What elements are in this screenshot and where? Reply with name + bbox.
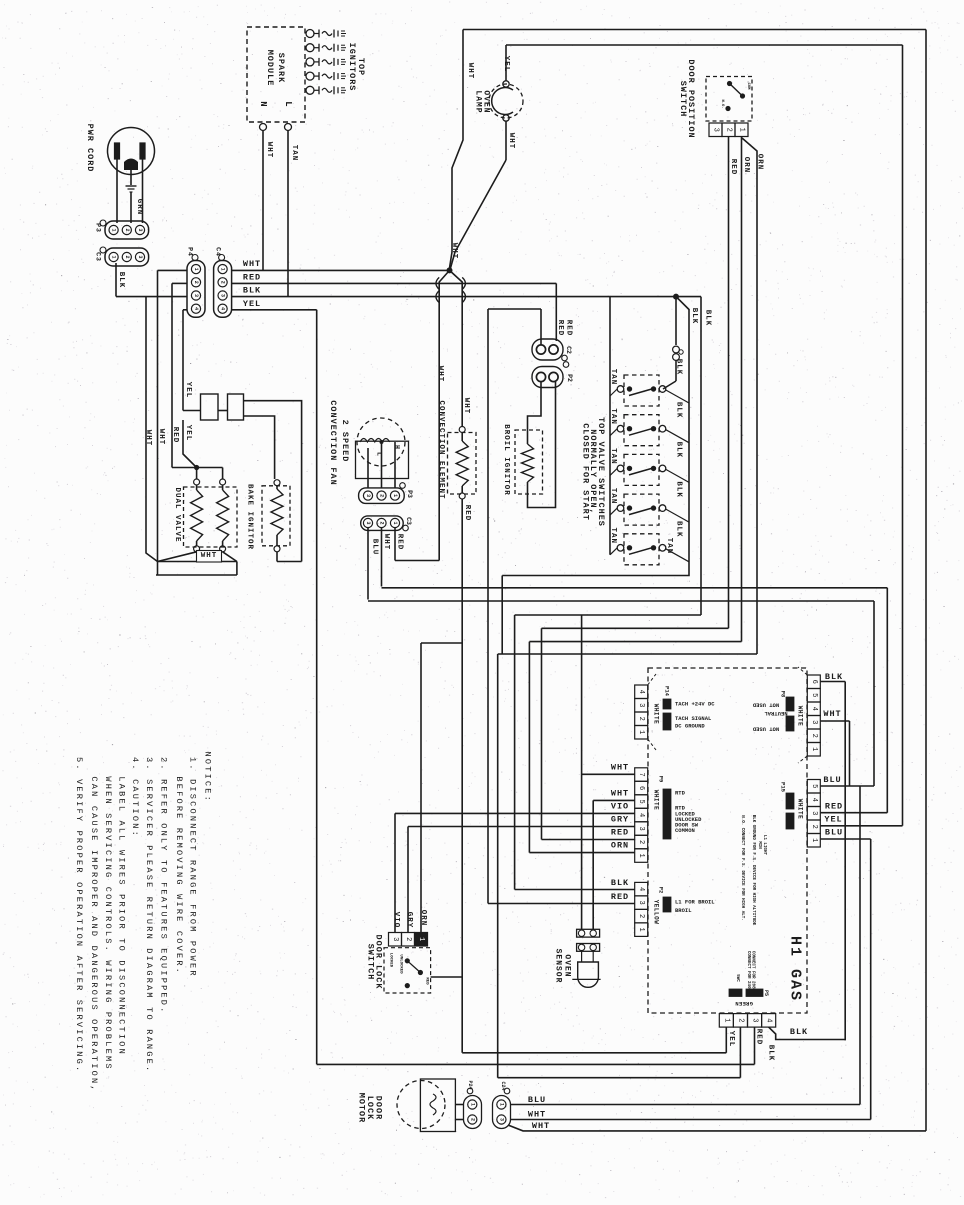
svg-text:WHT: WHT xyxy=(201,552,218,560)
svg-text:2: 2 xyxy=(404,937,412,941)
svg-text:COM: COM xyxy=(746,83,750,91)
svg-text:VIO: VIO xyxy=(611,802,629,812)
svg-text:RED: RED xyxy=(825,802,843,812)
svg-text:2: 2 xyxy=(810,825,818,829)
svg-text:TAN: TAN xyxy=(609,448,617,465)
svg-text:NOT USED: NOT USED xyxy=(752,702,779,709)
svg-text:RED: RED xyxy=(611,828,629,838)
svg-text:YEL: YEL xyxy=(243,299,261,309)
svg-text:1: 1 xyxy=(637,730,645,734)
svg-text:DUAL VALVE: DUAL VALVE xyxy=(173,487,181,542)
svg-text:3: 3 xyxy=(391,937,399,941)
svg-text:3: 3 xyxy=(810,720,818,724)
svg-text:P4: P4 xyxy=(187,247,194,257)
svg-text:CONVECTION FAN: CONVECTION FAN xyxy=(328,400,338,485)
svg-text:3: 3 xyxy=(137,228,143,231)
svg-text:1: 1 xyxy=(498,1103,504,1106)
svg-text:BLK GROUND FOR F.S. DEVICE FOR: BLK GROUND FOR F.S. DEVICE FOR HIGH ALTI… xyxy=(751,815,755,926)
svg-text:BROIL: BROIL xyxy=(675,907,692,914)
svg-text:CAN CAUSE IMPROPER AND DANGERO: CAN CAUSE IMPROPER AND DANGEROUS OPERATI… xyxy=(89,776,99,1092)
svg-text:LOCKED: LOCKED xyxy=(389,953,393,968)
svg-text:L: L xyxy=(283,101,293,106)
svg-text:2: 2 xyxy=(379,521,385,524)
svg-text:H1 GAS: H1 GAS xyxy=(787,936,804,1002)
svg-text:BLK: BLK xyxy=(675,481,683,498)
svg-text:3: 3 xyxy=(498,1118,504,1121)
svg-text:1: 1 xyxy=(392,521,398,524)
svg-text:RED: RED xyxy=(171,427,179,444)
svg-text:C2: C2 xyxy=(565,346,572,354)
svg-text:P3: P3 xyxy=(95,223,102,233)
svg-text:PWR CORD: PWR CORD xyxy=(85,124,95,173)
svg-text:NOTICE:: NOTICE: xyxy=(203,752,213,804)
svg-text:2: 2 xyxy=(736,1018,744,1022)
svg-text:TAN: TAN xyxy=(290,145,298,162)
svg-text:WHT: WHT xyxy=(450,243,458,260)
svg-text:CONNECT FOR 240V: CONNECT FOR 240V xyxy=(746,951,750,992)
svg-text:MODULE: MODULE xyxy=(265,50,275,87)
svg-text:C3: C3 xyxy=(405,517,412,525)
svg-text:P2: P2 xyxy=(658,887,665,894)
svg-text:6: 6 xyxy=(810,680,818,684)
svg-text:4: 4 xyxy=(220,307,226,310)
svg-text:2: 2 xyxy=(637,717,645,721)
svg-text:BLU: BLU xyxy=(825,828,843,838)
svg-text:3: 3 xyxy=(637,826,645,830)
svg-text:WHT: WHT xyxy=(265,142,273,159)
svg-text:WHT: WHT xyxy=(436,366,444,383)
svg-text:RED: RED xyxy=(243,273,261,283)
svg-text:WHT: WHT xyxy=(382,534,390,551)
svg-text:P5: P5 xyxy=(763,990,769,996)
svg-text:4: 4 xyxy=(637,887,645,891)
svg-text:WHT: WHT xyxy=(466,63,474,80)
svg-text:1: 1 xyxy=(722,1018,730,1022)
svg-text:5: 5 xyxy=(810,784,818,788)
svg-text:1: 1 xyxy=(810,747,818,751)
svg-text:3: 3 xyxy=(810,811,818,815)
svg-text:YELLOW: YELLOW xyxy=(653,900,660,925)
svg-text:3: 3 xyxy=(365,494,371,497)
svg-text:RED: RED xyxy=(565,320,573,337)
svg-text:1: 1 xyxy=(810,838,818,842)
svg-text:N.O.: N.O. xyxy=(720,99,724,108)
svg-text:CLOSED FOR START: CLOSED FOR START xyxy=(581,423,591,521)
svg-text:UNLOCKED: UNLOCKED xyxy=(399,954,403,974)
svg-text:4. CAUTION:: 4. CAUTION: xyxy=(130,757,140,838)
svg-text:BROIL IGNITOR: BROIL IGNITOR xyxy=(502,424,510,496)
svg-text:WHEN SERVICING CONTROLS. WIRIN: WHEN SERVICING CONTROLS. WIRING PROBLEMS xyxy=(103,776,113,1070)
svg-text:ORN: ORN xyxy=(742,157,750,174)
svg-text:1. DISCONNECT RANGE FROM POWER: 1. DISCONNECT RANGE FROM POWER xyxy=(187,757,197,978)
svg-text:WHT: WHT xyxy=(243,259,261,269)
svg-text:C3: C3 xyxy=(95,252,102,262)
svg-text:P8: P8 xyxy=(780,691,787,698)
svg-text:RED: RED xyxy=(729,159,737,176)
svg-text:RED: RED xyxy=(611,892,629,902)
svg-text:1: 1 xyxy=(469,1103,475,1106)
svg-text:LAMP: LAMP xyxy=(474,90,483,113)
svg-text:3: 3 xyxy=(193,294,199,297)
svg-text:WHITE: WHITE xyxy=(653,790,660,811)
svg-text:WHITE: WHITE xyxy=(797,706,804,727)
svg-text:2: 2 xyxy=(637,840,645,844)
svg-text:1: 1 xyxy=(417,937,425,941)
svg-text:N.O. CONNECT FOR F.S. DEVICE F: N.O. CONNECT FOR F.S. DEVICE FOR HIGH AL… xyxy=(740,815,744,921)
svg-text:4: 4 xyxy=(765,1018,773,1022)
svg-text:RTD: RTD xyxy=(675,790,686,797)
svg-text:3: 3 xyxy=(365,521,371,524)
svg-text:YEL: YEL xyxy=(502,56,510,73)
svg-text:1: 1 xyxy=(392,494,398,497)
svg-text:SPARK: SPARK xyxy=(276,53,286,84)
svg-text:VIO: VIO xyxy=(392,912,400,929)
svg-text:2: 2 xyxy=(124,228,130,231)
svg-text:YEL: YEL xyxy=(184,425,192,442)
svg-text:TACH SIGNAL: TACH SIGNAL xyxy=(675,715,712,722)
svg-text:BLK: BLK xyxy=(675,521,683,538)
svg-text:5WC: 5WC xyxy=(735,974,739,982)
svg-text:4: 4 xyxy=(810,798,818,802)
svg-text:WHT: WHT xyxy=(528,1110,546,1120)
svg-text:P3: P3 xyxy=(406,490,413,498)
svg-text:BLK: BLK xyxy=(243,286,261,296)
svg-text:WHT: WHT xyxy=(462,398,470,415)
svg-text:BLU: BLU xyxy=(371,539,379,556)
svg-text:COMMON: COMMON xyxy=(675,827,695,834)
svg-text:5: 5 xyxy=(637,799,645,803)
svg-text:2: 2 xyxy=(810,734,818,738)
svg-text:TAN: TAN xyxy=(609,488,617,505)
svg-text:BEFORE REMOVING WIRE COVER.: BEFORE REMOVING WIRE COVER. xyxy=(174,776,184,975)
svg-text:3: 3 xyxy=(137,255,143,258)
svg-text:MOTOR: MOTOR xyxy=(357,1093,367,1124)
svg-text:2: 2 xyxy=(637,914,645,918)
svg-text:IGNITORS: IGNITORS xyxy=(347,43,357,92)
svg-text:L1 FOR BROIL: L1 FOR BROIL xyxy=(675,899,715,906)
svg-text:BLK: BLK xyxy=(704,310,712,327)
svg-text:BLK: BLK xyxy=(825,672,843,682)
svg-text:2: 2 xyxy=(725,128,733,132)
svg-text:C24: C24 xyxy=(500,1081,506,1090)
svg-text:OVEN: OVEN xyxy=(563,954,572,977)
svg-text:4: 4 xyxy=(810,707,818,711)
svg-text:YEL: YEL xyxy=(824,815,842,825)
svg-text:RED: RED xyxy=(425,977,429,985)
svg-text:BLK: BLK xyxy=(690,308,698,325)
svg-text:BAKE IGNITOR: BAKE IGNITOR xyxy=(246,484,254,550)
svg-text:2. REFER ONLY TO FEATURES EQUI: 2. REFER ONLY TO FEATURES EQUIPPED. xyxy=(159,757,169,1015)
svg-text:SENSOR: SENSOR xyxy=(554,949,563,984)
svg-text:1: 1 xyxy=(193,268,199,271)
svg-text:P9: P9 xyxy=(658,776,665,783)
svg-text:SWITCH: SWITCH xyxy=(678,81,688,118)
svg-text:P15: P15 xyxy=(780,782,787,793)
svg-text:GRY: GRY xyxy=(405,912,413,929)
svg-text:GRN: GRN xyxy=(135,199,143,216)
svg-text:C4: C4 xyxy=(215,247,222,257)
svg-text:1: 1 xyxy=(637,853,645,857)
svg-text:YEL: YEL xyxy=(184,382,192,399)
svg-text:BLU: BLU xyxy=(823,775,841,785)
svg-text:P24: P24 xyxy=(467,1080,473,1089)
svg-text:6: 6 xyxy=(637,786,645,790)
svg-text:2: 2 xyxy=(124,255,130,258)
svg-text:P2: P2 xyxy=(566,374,573,382)
svg-text:N: N xyxy=(258,101,268,106)
svg-text:5: 5 xyxy=(810,693,818,697)
svg-text:RED: RED xyxy=(463,505,471,522)
svg-text:3. SERVICER PLEASE RETURN DIAG: 3. SERVICER PLEASE RETURN DIAGRAM TO RAN… xyxy=(144,757,154,1073)
svg-text:BLK: BLK xyxy=(767,1045,775,1062)
svg-text:NOT USED: NOT USED xyxy=(752,726,779,733)
svg-text:ORN: ORN xyxy=(756,154,764,171)
svg-text:BLK: BLK xyxy=(611,878,629,888)
svg-text:1: 1 xyxy=(738,128,746,132)
svg-text:3: 3 xyxy=(637,703,645,707)
svg-text:1: 1 xyxy=(111,228,117,231)
svg-text:BLU: BLU xyxy=(528,1095,546,1105)
svg-text:SWITCH: SWITCH xyxy=(366,944,376,981)
svg-text:2: 2 xyxy=(220,281,226,284)
svg-text:BLK: BLK xyxy=(675,442,683,459)
svg-text:CONNECT FOR 208V: CONNECT FOR 208V xyxy=(751,951,755,992)
svg-text:WHITE: WHITE xyxy=(797,799,804,820)
svg-text:WHT: WHT xyxy=(157,429,165,446)
svg-text:3: 3 xyxy=(220,294,226,297)
svg-text:RED: RED xyxy=(755,1029,763,1046)
svg-text:1: 1 xyxy=(637,928,645,932)
svg-text:3: 3 xyxy=(712,128,720,132)
svg-text:1: 1 xyxy=(220,268,226,271)
svg-text:BLK: BLK xyxy=(675,402,683,419)
svg-text:LABEL ALL WIRES PRIOR TO DISCO: LABEL ALL WIRES PRIOR TO DISCONNECTION xyxy=(116,776,126,1056)
svg-text:4: 4 xyxy=(637,690,645,694)
svg-text:TAN: TAN xyxy=(665,538,673,555)
svg-text:TACH +24V DC: TACH +24V DC xyxy=(675,701,715,708)
svg-text:WHITE: WHITE xyxy=(653,704,660,725)
svg-text:RED: RED xyxy=(556,320,564,337)
svg-text:WHT: WHT xyxy=(611,763,629,773)
svg-text:TAN: TAN xyxy=(609,528,617,545)
svg-text:TAN: TAN xyxy=(609,369,617,386)
svg-text:WHT: WHT xyxy=(507,133,515,150)
svg-text:4: 4 xyxy=(637,813,645,817)
svg-text:3: 3 xyxy=(637,901,645,905)
svg-text:BLK: BLK xyxy=(675,359,683,376)
svg-text:CONVECTION ELEMENT: CONVECTION ELEMENT xyxy=(437,400,445,499)
svg-text:NEUTRAL: NEUTRAL xyxy=(764,710,788,717)
svg-text:2: 2 xyxy=(469,1118,475,1121)
svg-text:WHT: WHT xyxy=(532,1121,550,1131)
svg-text:RED: RED xyxy=(396,534,404,551)
svg-text:WHT: WHT xyxy=(823,709,841,719)
svg-text:MIN: MIN xyxy=(757,841,761,849)
svg-text:YEL: YEL xyxy=(727,1031,735,1048)
svg-text:GREEN: GREEN xyxy=(735,1000,753,1007)
svg-text:TAN: TAN xyxy=(609,408,617,425)
svg-text:4: 4 xyxy=(193,307,199,310)
svg-text:P14: P14 xyxy=(664,686,671,697)
svg-text:DC GROUND: DC GROUND xyxy=(675,723,705,730)
svg-text:ORN: ORN xyxy=(611,841,629,851)
svg-text:2: 2 xyxy=(379,494,385,497)
svg-text:GRY: GRY xyxy=(611,815,629,825)
svg-text:WHT: WHT xyxy=(611,789,629,799)
svg-text:BLK: BLK xyxy=(790,1027,808,1037)
svg-text:2: 2 xyxy=(193,281,199,284)
svg-text:2 SPEED: 2 SPEED xyxy=(340,420,350,463)
svg-text:L1 LIGHT: L1 LIGHT xyxy=(762,835,766,856)
svg-text:1: 1 xyxy=(111,255,117,258)
svg-text:5. VERIFY PROPER OPERATION AFT: 5. VERIFY PROPER OPERATION AFTER SERVICI… xyxy=(74,757,84,1073)
svg-text:BLK: BLK xyxy=(117,272,125,289)
svg-text:3: 3 xyxy=(751,1018,759,1022)
svg-text:7: 7 xyxy=(637,772,645,776)
